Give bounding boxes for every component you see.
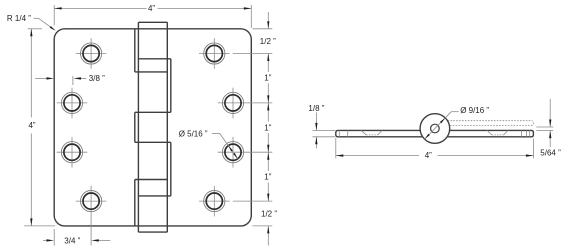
side view left leaf bar <box>336 130 423 136</box>
svg-text:4”: 4” <box>148 4 155 13</box>
svg-text:4”: 4” <box>28 121 35 130</box>
hinge pin hole <box>431 124 440 133</box>
dimension 1/8 inch leaf thickness <box>308 104 335 148</box>
svg-text:1”: 1” <box>264 173 271 182</box>
svg-text:1/8 ”: 1/8 ” <box>308 104 324 113</box>
hinge leaf outline (front view) <box>54 29 251 226</box>
svg-text:1”: 1” <box>264 123 271 132</box>
dimension 3/4 inch hole offset bottom <box>43 229 110 246</box>
screw hole row4 left <box>76 186 107 246</box>
hole diameter label 5/16 with leader <box>179 129 238 159</box>
dimension 4 inch left height <box>24 29 55 226</box>
dimension 4 inch side view width <box>336 138 534 160</box>
svg-text:1”: 1” <box>264 74 271 83</box>
knuckle circle <box>420 114 450 144</box>
right bar countersink section <box>487 130 508 135</box>
screw hole row2 right <box>218 88 273 119</box>
screw hole row3 left <box>57 137 88 168</box>
svg-text:1/2 ”: 1/2 ” <box>260 37 276 46</box>
diameter label 9/16 with leader <box>425 106 490 139</box>
left bar end cap lines <box>339 130 347 136</box>
right bar end cap lines <box>522 130 530 136</box>
corner radius label R 1/4 <box>7 14 56 31</box>
hidden knuckle outline (dashed) <box>448 121 534 126</box>
right side chained dimensions 1/2, 1, 1, 1, 1/2 <box>233 12 278 246</box>
screw hole row1 left <box>76 38 107 69</box>
left bar countersink section <box>361 130 382 135</box>
svg-text:Ø 5/16 ”: Ø 5/16 ” <box>179 129 208 138</box>
dimension 5/64 inch leaf gauge <box>536 99 561 157</box>
barrel / knuckle column <box>138 22 167 232</box>
svg-text:Ø 9/16 ”: Ø 9/16 ” <box>460 106 489 115</box>
screw hole row2 left <box>57 88 88 119</box>
svg-text:4”: 4” <box>425 151 432 160</box>
svg-text:3/8 ”: 3/8 ” <box>89 74 105 83</box>
dimension 4 inch top width <box>54 4 251 28</box>
right leaf knuckle boxes <box>135 59 171 196</box>
left leaf knuckle boxes <box>135 29 168 226</box>
screw hole row4 right <box>199 186 230 217</box>
svg-text:3/4 ”: 3/4 ” <box>64 236 80 245</box>
svg-text:5/64 ”: 5/64 ” <box>540 148 561 157</box>
side view right leaf bar <box>447 130 533 136</box>
screw hole row3 right <box>218 137 273 168</box>
svg-text:1/2 ”: 1/2 ” <box>261 209 277 218</box>
dimension 3/8 inch hole offset <box>35 74 105 85</box>
svg-text:R 1/4 ”: R 1/4 ” <box>7 14 31 23</box>
screw hole row1 right <box>199 38 230 69</box>
